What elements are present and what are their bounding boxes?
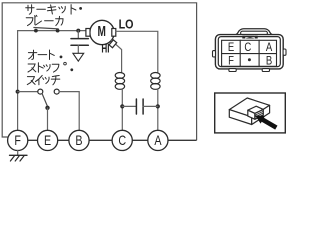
wire: left choke to terminal C	[121, 89, 123, 130]
junction node: switch common tap on F line	[16, 90, 20, 94]
circuit breaker blade	[34, 28, 58, 29]
wire: pivot to terminal E	[47, 108, 49, 130]
svg-text:A: A	[266, 41, 273, 54]
motor letter M	[98, 23, 106, 39]
junction node on C branch	[120, 104, 124, 108]
switch pivot node	[45, 106, 49, 110]
svg-text:F: F	[14, 133, 21, 148]
capacitor C2 between branches	[122, 99, 158, 114]
label auto stop switch line1 (オート・)	[28, 50, 62, 60]
connector J1 pin E	[228, 41, 234, 54]
capacitor ground triangle symbol	[73, 53, 84, 61]
svg-text:C: C	[118, 133, 126, 148]
junction node on A branch	[156, 104, 160, 108]
label HI	[101, 43, 109, 56]
label circuit breaker line2 (ブレーカ)	[26, 15, 63, 25]
connector J1 face: lock tab	[235, 29, 273, 35]
auto stop switch blade	[42, 94, 47, 106]
connector J1 face: outer shell	[215, 35, 283, 69]
connector J1 face: lock tab slot	[241, 31, 268, 35]
connector J1 pin F	[228, 54, 234, 67]
connector housing 3D icon: top face	[229, 98, 269, 117]
connector housing 3D icon: coupler face with terminals	[255, 109, 263, 119]
wire: vertical from breaker down to terminal F	[17, 31, 19, 131]
svg-text:C: C	[244, 41, 251, 54]
connector housing 3D icon: coupler top	[248, 106, 263, 113]
connector J1 face: right side bump	[283, 49, 286, 55]
terminal A	[148, 130, 168, 150]
svg-text:M: M	[98, 23, 106, 39]
motor brush left	[86, 29, 90, 37]
svg-text:B: B	[75, 133, 82, 148]
ground symbol below F	[10, 151, 28, 162]
svg-text:E: E	[228, 41, 234, 54]
terminal E	[38, 130, 58, 150]
svg-text:LO: LO	[119, 18, 134, 32]
wire: HI from angled brush down to left choke	[111, 40, 121, 73]
junction node: noise capacitor tap	[76, 29, 80, 33]
connector J1 face: left side bump	[213, 51, 216, 57]
connector J1 pin A	[266, 41, 273, 54]
label auto stop switch line3 (スイッチ)	[27, 75, 60, 84]
svg-text:B: B	[266, 54, 272, 67]
terminal B	[69, 130, 89, 150]
connector J1 face: right foot	[262, 69, 269, 72]
motor brush right (LO)	[112, 29, 116, 37]
svg-text:E: E	[44, 133, 51, 148]
connector J1 face: cavity grid	[222, 40, 277, 66]
connector housing 3D icon: right end face	[252, 105, 270, 124]
wiper motor assembly boundary box	[2, 3, 196, 141]
connector J1 face: latch bowtie marks	[242, 36, 257, 39]
connector J1 pin B	[266, 54, 272, 67]
connector J1 face: left foot	[229, 69, 236, 72]
label circuit breaker line1 (サーキット・)	[26, 5, 82, 15]
connector J1 pin C	[244, 41, 251, 54]
svg-text:A: A	[154, 133, 162, 148]
wire: right choke to terminal A	[157, 89, 159, 130]
wire: contact 2 to terminal B	[59, 92, 79, 131]
svg-text:HI: HI	[101, 43, 109, 56]
circuit breaker contact dot left	[34, 29, 38, 33]
terminal F	[8, 130, 28, 150]
connector J1 center index dot	[248, 58, 251, 61]
choke coil L2 (right)	[151, 73, 160, 90]
inset panel box	[215, 93, 286, 133]
auto stop switch contact 2	[54, 89, 59, 94]
svg-text:F: F	[228, 54, 234, 67]
wiper motor M1 body	[90, 20, 114, 44]
circuit breaker contact dot right	[56, 29, 60, 33]
connector housing 3D icon: front-left face	[229, 110, 251, 125]
auto stop switch contact 1	[38, 89, 43, 94]
circuit breaker feed wire	[18, 30, 86, 32]
noise suppressor capacitor	[71, 31, 88, 53]
terminal C	[112, 130, 132, 150]
label auto stop switch line2 (ストップ・)	[28, 62, 73, 72]
choke coil L1 (left)	[115, 73, 124, 90]
connector J1 face: inner frame	[218, 37, 280, 67]
pointer arrow	[255, 115, 277, 129]
label LO	[119, 18, 134, 32]
connector housing 3D icon: coupler left	[248, 110, 255, 119]
wire: tap to switch contact 1	[18, 91, 38, 93]
motor brush lower-right (HI)	[109, 40, 117, 48]
wire: LO from right brush to right choke	[116, 31, 158, 73]
